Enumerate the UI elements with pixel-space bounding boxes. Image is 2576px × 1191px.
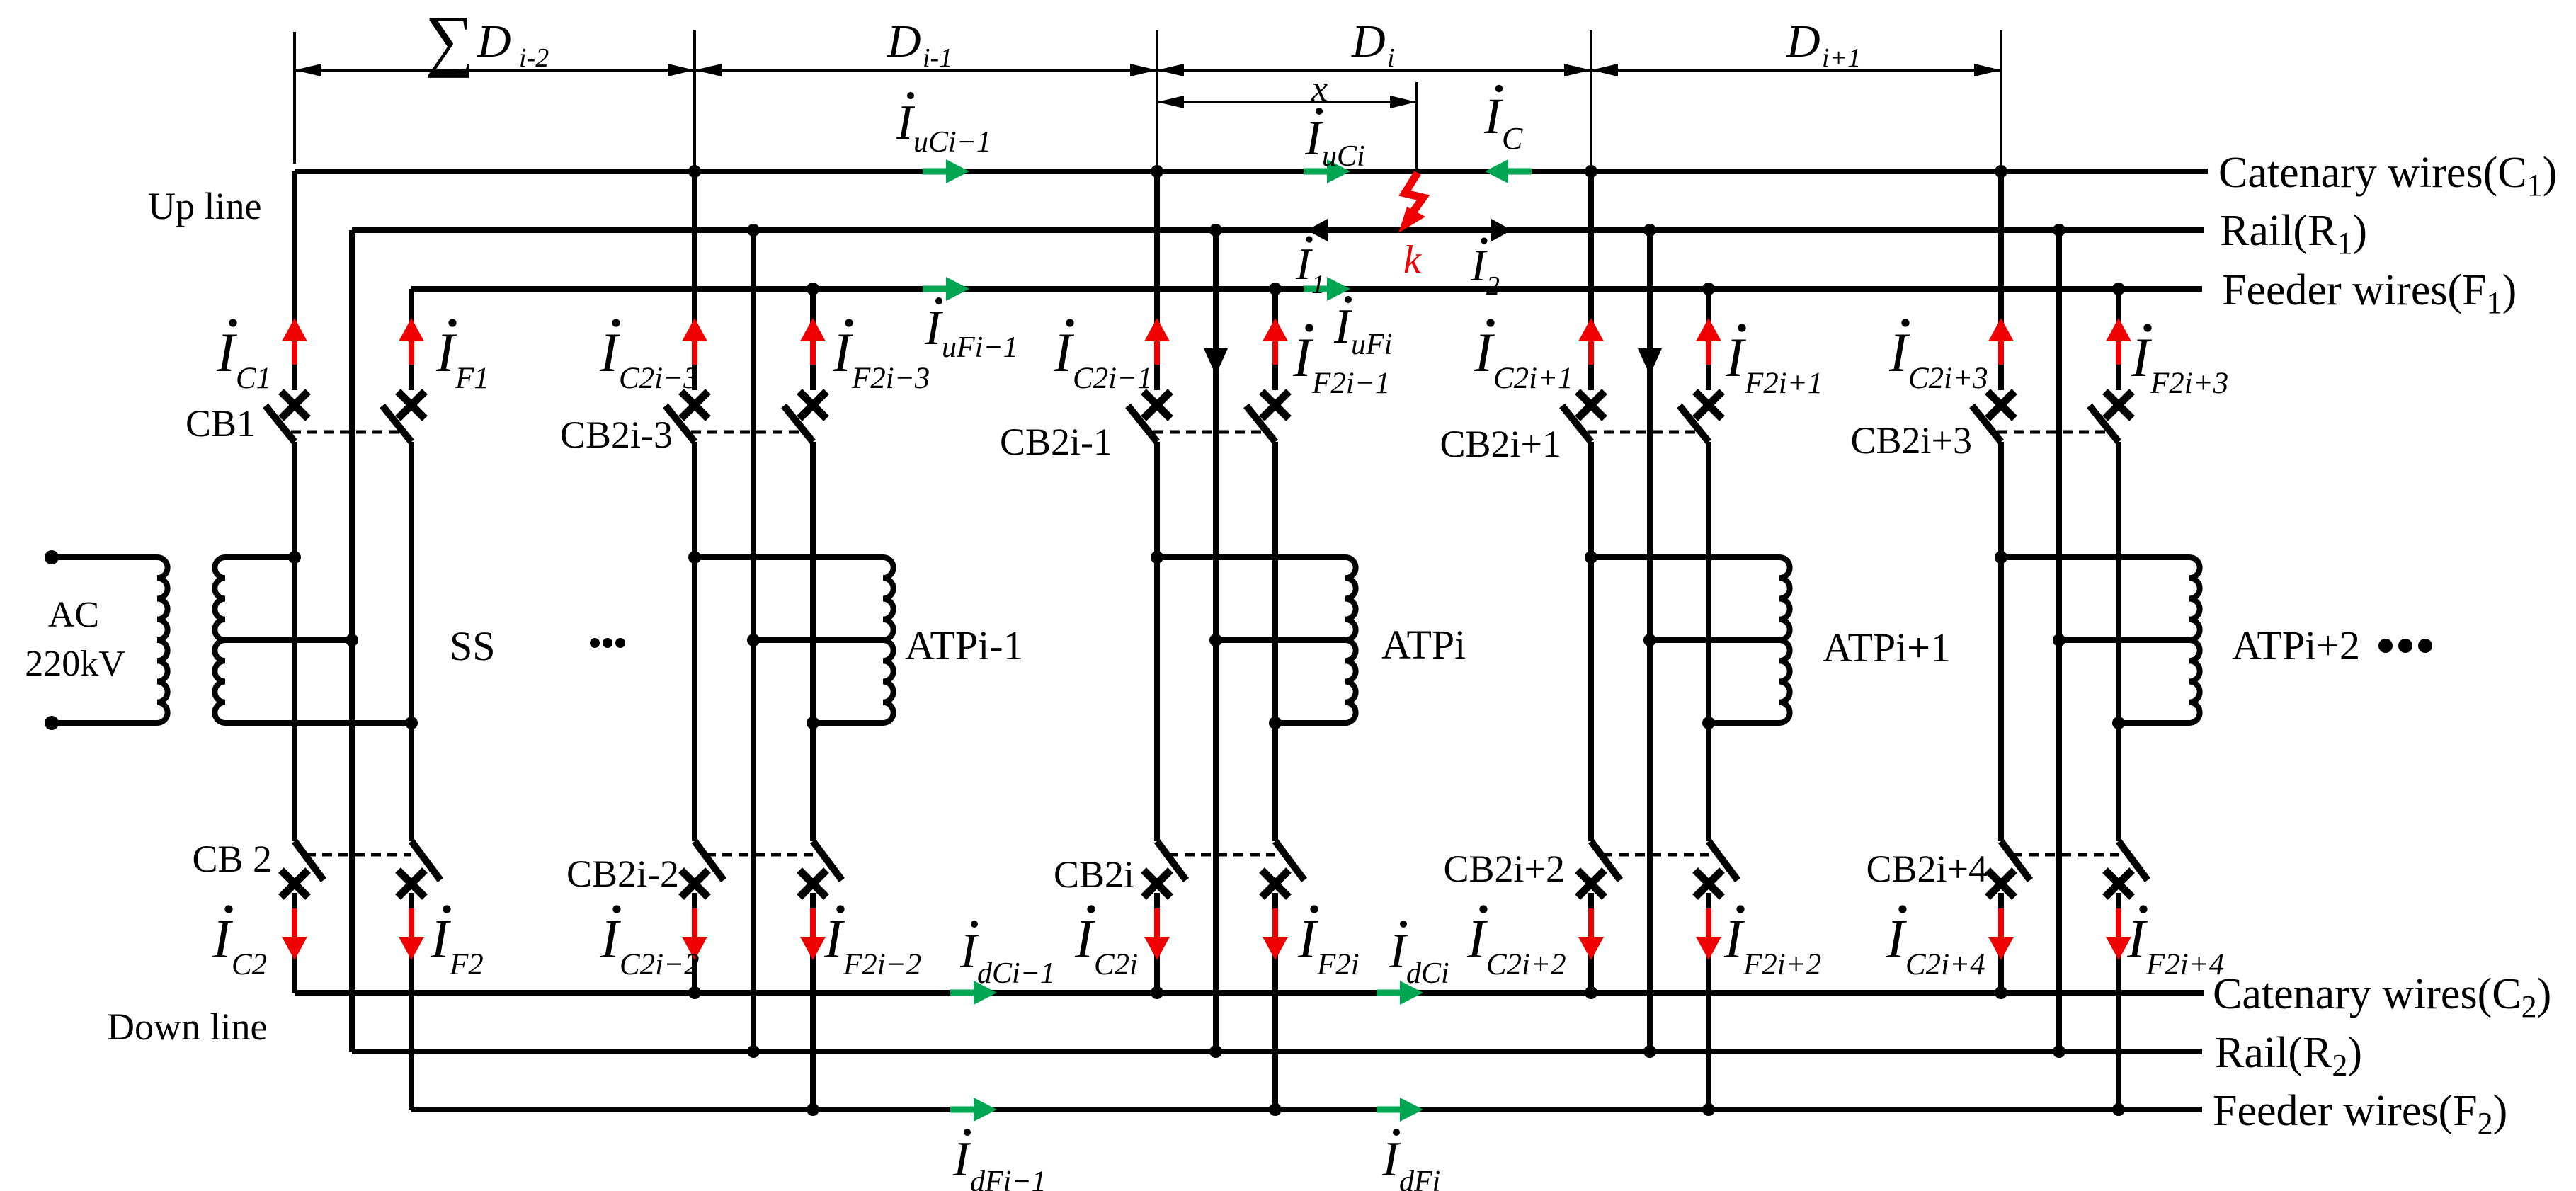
current arrow İ_C2i (red down)	[1144, 908, 1170, 960]
circuit breaker CB2i+3 feeder pole	[2090, 392, 2132, 442]
circuit breaker CB1 catenary pole	[266, 392, 308, 442]
label İ_C2i+1	[1474, 319, 1573, 395]
svg-text:I: I	[1725, 326, 1747, 388]
CB1 linkage dashed	[291, 431, 400, 434]
svg-text:I: I	[832, 321, 854, 383]
wire ATPi rail leg	[1213, 230, 1219, 1052]
label İ_C2	[212, 905, 267, 981]
svg-text:I: I	[1304, 111, 1324, 166]
transformer SS secondary winding	[215, 557, 225, 723]
node ATPi catenary tap	[1151, 551, 1163, 564]
wire ATPi+1 catenary leg upper (C1 to CB)	[1588, 171, 1594, 390]
label İ_uFi	[1333, 296, 1392, 361]
node ATPi feeder tap	[1269, 717, 1282, 729]
svg-text:F2i+1: F2i+1	[1744, 367, 1823, 400]
svg-text:i-1: i-1	[923, 43, 952, 73]
wire AC top terminal	[52, 554, 157, 560]
circuit breaker CB 2 feeder pole	[398, 841, 440, 897]
svg-text:ATPi-1: ATPi-1	[905, 622, 1024, 668]
dimension line spans D	[295, 69, 2001, 72]
wire ATPi bottom to feeder leg	[1275, 720, 1345, 726]
current arrow İ_F2i+2 (red down)	[1696, 908, 1721, 960]
node ATPi+2 rail centre tap	[2053, 634, 2065, 646]
wire ATPi-1 bottom to feeder leg	[813, 720, 883, 726]
label İ_C2i+3	[1888, 319, 1988, 395]
svg-text:I: I	[823, 908, 845, 969]
label D_i	[1351, 16, 1395, 73]
node ATPi-1 catenary-C1 junction	[688, 165, 701, 178]
wire ATPi-1 catenary leg upper (C1 to CB)	[692, 171, 697, 390]
svg-text:I: I	[896, 96, 916, 150]
node ATPi-1 rail-R2 junction	[747, 1045, 760, 1058]
svg-text:I: I	[1333, 300, 1353, 354]
wire AC bottom terminal	[52, 720, 157, 726]
wire SS catenary leg upper (C1 to CB)	[292, 171, 297, 390]
wire SS secondary centre tap to rail leg	[225, 637, 352, 643]
svg-text:C2i−1: C2i−1	[1073, 362, 1153, 395]
svg-text:I: I	[1723, 908, 1745, 969]
svg-text:I: I	[1886, 908, 1908, 969]
wire ATPi+1 catenary leg middle	[1588, 442, 1594, 841]
node ATPi+2 feeder tap	[2112, 717, 2125, 729]
autotransformer ATPi-1 winding	[883, 557, 894, 723]
svg-text:AC: AC	[48, 595, 99, 635]
current arrow İ_F2i-3 (red up)	[800, 318, 826, 365]
svg-text:D: D	[477, 16, 511, 67]
wire ATPi+1 feeder leg middle	[1706, 442, 1711, 841]
wire ATPi catenary leg lower (CB to C2)	[1154, 893, 1160, 993]
autotransformer ATPi winding	[1345, 557, 1356, 723]
node ATPi+1 catenary tap	[1585, 551, 1597, 564]
wire ATPi-1 feeder leg upper (F1 to CB)	[810, 289, 816, 390]
label İ_C2i+2	[1466, 905, 1566, 981]
circuit breaker CB1 feeder pole	[382, 392, 425, 442]
wire ATPi+2 rail leg	[2056, 230, 2062, 1052]
wire SS catenary leg middle	[292, 442, 297, 841]
svg-text:I: I	[1381, 1132, 1401, 1187]
svg-text:I: I	[216, 321, 238, 383]
svg-text:C2i+1: C2i+1	[1493, 362, 1573, 395]
current arrow İ_F2i-1 (red up)	[1263, 318, 1288, 365]
node ATPi+1 feeder-F2 junction	[1702, 1103, 1715, 1116]
label sum D_i-2	[425, 2, 549, 79]
label İ_uCi	[1304, 108, 1365, 173]
label İ_C2i-1	[1053, 319, 1153, 395]
dimension boundary tick above ATPi	[1156, 30, 1158, 170]
circuit breaker CB2i+4 feeder pole	[2105, 841, 2148, 897]
CB 2 linkage dashed	[306, 853, 411, 857]
svg-text:dFi: dFi	[1399, 1166, 1440, 1191]
label İ_F1	[435, 319, 489, 395]
CB2i linkage dashed	[1168, 853, 1275, 857]
svg-text:CB2i-1: CB2i-1	[1000, 421, 1112, 463]
wire ATPi+1 feeder leg upper (F1 to CB)	[1706, 289, 1711, 390]
label İ_F2i+1	[1725, 324, 1823, 400]
svg-text:I: I	[435, 321, 457, 383]
node SS secondary bottom junction	[405, 717, 418, 729]
label İ_C2i+4	[1886, 905, 1985, 981]
svg-text:I: I	[1389, 924, 1408, 979]
label İ_F2i-2	[823, 905, 921, 981]
label İ_C	[1483, 85, 1523, 156]
current arrow İ_C1 (red up)	[282, 318, 307, 365]
svg-text:F2i−2: F2i−2	[843, 948, 921, 981]
svg-text:F2i: F2i	[1316, 948, 1360, 981]
node ATPi-1 rail centre tap	[747, 634, 760, 646]
circuit breaker CB2i feeder pole	[1262, 841, 1304, 897]
node ATPi catenary-C2 junction	[1151, 986, 1163, 999]
label AC 220kV	[25, 595, 125, 684]
svg-text:dCi−1: dCi−1	[977, 957, 1055, 990]
svg-text:I: I	[430, 908, 452, 969]
node ATPi-1 catenary-C2 junction	[688, 986, 701, 999]
svg-text:I: I	[1466, 908, 1488, 969]
svg-text:F2i−3: F2i−3	[851, 362, 930, 395]
svg-text:220kV: 220kV	[25, 644, 125, 684]
node ATPi rail centre tap	[1209, 634, 1222, 646]
node ATPi-1 feeder-F2 junction	[807, 1103, 819, 1116]
circuit breaker CB2i+4 catenary pole	[1988, 841, 2030, 897]
label İ_F2i-1	[1292, 324, 1390, 400]
current arrow İ_1 (black, leftward) on R1	[1307, 219, 1328, 241]
node ATPi-1 feeder-F1 junction	[807, 283, 819, 295]
svg-text:I: I	[1292, 326, 1314, 388]
circuit breaker CB2i-1 catenary pole	[1128, 392, 1170, 442]
label İ_C1	[216, 319, 271, 395]
wire ATPi feeder leg lower (CB to F2)	[1272, 893, 1278, 1110]
label İ_F2i	[1297, 905, 1360, 981]
svg-text:I: I	[1053, 321, 1075, 383]
wire ATPi-1 catenary leg middle	[692, 442, 697, 841]
svg-text:Up line: Up line	[148, 185, 261, 227]
svg-text:F2i−1: F2i−1	[1311, 367, 1390, 400]
node ATPi+1 catenary-C2 junction	[1585, 986, 1597, 999]
circuit breaker CB2i catenary pole	[1144, 841, 1186, 897]
svg-text:C2: C2	[232, 948, 267, 981]
dimension arrowheads	[295, 64, 2001, 76]
node ATPi+1 rail-R1 junction	[1643, 224, 1656, 237]
svg-text:I: I	[952, 1132, 972, 1187]
svg-text:i-2: i-2	[519, 43, 549, 73]
ellipsis dots after ATPi+2	[2378, 639, 2432, 653]
svg-text:uFi−1: uFi−1	[942, 331, 1018, 364]
node ATPi+2 rail-R1 junction	[2053, 224, 2065, 237]
wire ATPi centre tap to rail leg	[1216, 637, 1345, 643]
svg-text:I: I	[1297, 908, 1319, 969]
wire SS secondary top to catenary leg	[225, 554, 295, 560]
svg-text:C: C	[1502, 121, 1523, 156]
svg-text:F2: F2	[449, 948, 484, 981]
wire ATPi+1 catenary leg lower (CB to C2)	[1588, 893, 1594, 993]
svg-text:ATPi: ATPi	[1381, 622, 1466, 668]
current arrow İ_dCi-1 (green) on C2	[950, 981, 997, 1005]
circuit breaker CB2i-3 feeder pole	[784, 392, 826, 442]
wire ATPi+1 centre tap to rail leg	[1650, 637, 1779, 643]
CB2i+1 linkage dashed	[1588, 431, 1697, 434]
label D_i-1	[887, 16, 952, 73]
svg-text:Catenary wires(C2): Catenary wires(C2)	[2213, 970, 2551, 1024]
wire ATPi-1 centre tap to rail leg	[753, 637, 883, 643]
svg-text:F2i+3: F2i+3	[2150, 367, 2228, 400]
wire ATPi+2 catenary leg upper (C1 to CB)	[1998, 171, 2004, 390]
fault distance tick at k	[1415, 82, 1418, 170]
wire ATPi+1 feeder leg lower (CB to F2)	[1706, 893, 1711, 1110]
wire ATPi top to catenary leg	[1157, 554, 1345, 560]
wire ATPi-1 feeder leg lower (CB to F2)	[810, 893, 816, 1110]
svg-text:2: 2	[1486, 271, 1500, 301]
wire ATPi catenary leg middle	[1154, 442, 1160, 841]
CB2i-2 linkage dashed	[706, 853, 813, 857]
label İ_C2i	[1074, 905, 1138, 981]
svg-text:ATPi+2: ATPi+2	[2232, 622, 2360, 668]
AC source terminal dots	[45, 550, 59, 730]
autotransformer ATPi+2 winding	[2189, 557, 2200, 723]
node ATPi+2 catenary-C1 junction	[1995, 165, 2007, 178]
current arrow İ_C2 (red down)	[282, 908, 307, 960]
label D_i+1	[1786, 16, 1861, 73]
label İ_dCi-1	[959, 921, 1055, 990]
node ATPi+2 catenary tap	[1995, 551, 2007, 564]
wire ATPi+1 top to catenary leg	[1591, 554, 1779, 560]
current arrow İ_C2i+3 (red up)	[1988, 318, 2014, 365]
current arrow İ_dFi (green) on F2	[1377, 1098, 1423, 1122]
current arrow İ_uFi (green) on F1	[1304, 277, 1350, 301]
CB2i+4 linkage dashed	[2012, 853, 2119, 857]
wire ATPi-1 rail leg	[751, 230, 756, 1052]
svg-text:C2i+4: C2i+4	[1905, 948, 1985, 981]
label İ_uFi-1	[924, 297, 1018, 364]
node ATPi+2 rail-R2 junction	[2053, 1045, 2065, 1058]
svg-text:Catenary wires(C1): Catenary wires(C1)	[2218, 149, 2557, 203]
current arrow İ_uCi (green) on C1	[1304, 159, 1350, 183]
label İ_dCi	[1389, 921, 1449, 990]
current arrow İ_uCi-1 (green) on C1	[923, 159, 969, 183]
current arrow İ_2 (black, rightward) on R1	[1491, 219, 1512, 241]
current arrow İ_dFi-1 (green) on F2	[950, 1098, 997, 1122]
wire catenary C1 (up line)	[295, 169, 2208, 174]
svg-text:D: D	[1786, 16, 1820, 67]
svg-text:∑: ∑	[425, 2, 474, 79]
svg-text:C2i−2: C2i−2	[620, 948, 700, 981]
wire ATPi-1 catenary leg lower (CB to C2)	[692, 893, 697, 993]
svg-text:CB2i: CB2i	[1054, 853, 1134, 896]
svg-text:SS: SS	[450, 623, 496, 669]
CB2i-3 linkage dashed	[691, 431, 802, 434]
svg-text:F2i+2: F2i+2	[1743, 948, 1821, 981]
node SS secondary top junction	[288, 551, 301, 564]
wire rail R2 (down line)	[352, 1049, 2202, 1054]
svg-text:CB2i-3: CB2i-3	[560, 414, 673, 456]
wire SS secondary bottom to feeder leg	[225, 720, 411, 726]
svg-text:I: I	[1474, 321, 1495, 383]
black down arrow on ATPi rail leg	[1204, 348, 1228, 375]
wire ATPi+2 centre tap to rail leg	[2059, 637, 2189, 643]
node ATPi feeder-F2 junction	[1269, 1103, 1282, 1116]
svg-text:I: I	[1295, 239, 1313, 289]
svg-text:uCi: uCi	[1322, 140, 1365, 173]
wire ATPi+2 feeder leg lower (CB to F2)	[2116, 893, 2121, 1110]
node SS centre tap junction	[346, 634, 358, 646]
node ATPi feeder-F1 junction	[1269, 283, 1282, 295]
CB2i+2 linkage dashed	[1602, 853, 1709, 857]
svg-text:x: x	[1311, 69, 1328, 109]
wire SS catenary leg lower (CB to C2)	[292, 893, 297, 993]
wire ATPi feeder leg middle	[1272, 442, 1278, 841]
svg-text:Feeder wires(F2): Feeder wires(F2)	[2213, 1087, 2507, 1141]
dimension boundary tick above ATPi+2	[2000, 30, 2002, 170]
node ATPi-1 feeder tap	[807, 717, 819, 729]
wire ATPi+2 catenary leg middle	[1998, 442, 2004, 841]
wire SS feeder leg upper (F1 to CB)	[409, 289, 414, 390]
current arrow İ_F1 (red up)	[399, 318, 424, 365]
wire ATPi+1 rail leg	[1647, 230, 1653, 1052]
svg-text:CB2i+1: CB2i+1	[1440, 423, 1562, 465]
circuit breaker CB2i+1 catenary pole	[1562, 392, 1605, 442]
wire feeder F1 (up line)	[411, 286, 2202, 292]
svg-text:I: I	[599, 321, 621, 383]
label İ_F2i+4	[2126, 905, 2224, 981]
wire SS feeder leg middle	[409, 442, 414, 841]
svg-text:CB1: CB1	[186, 402, 256, 445]
node ATPi+2 feeder-F2 junction	[2112, 1103, 2125, 1116]
wire ATPi+2 catenary leg lower (CB to C2)	[1998, 893, 2004, 993]
current arrow İ_F2 (red down)	[399, 908, 424, 960]
current arrow İ_C (green, leftward) on C1	[1485, 159, 1532, 183]
label İ_F2i+3	[2131, 324, 2228, 400]
svg-text:CB2i-2: CB2i-2	[566, 853, 679, 895]
fault lightning bolt at k	[1398, 173, 1425, 233]
svg-text:i+1: i+1	[1822, 43, 1861, 73]
svg-text:I: I	[1074, 908, 1096, 969]
wire catenary C2 (down line)	[295, 990, 2204, 996]
circuit breaker CB 2 catenary pole	[281, 841, 324, 897]
current arrow İ_uFi-1 (green) on F1	[923, 277, 969, 301]
transformer SS primary winding	[157, 557, 168, 723]
svg-text:C2i+3: C2i+3	[1908, 362, 1988, 395]
svg-text:ATPi+1: ATPi+1	[1823, 625, 1951, 671]
CB2i+3 linkage dashed	[1997, 431, 2107, 434]
circuit breaker CB2i+1 feeder pole	[1680, 392, 1722, 442]
svg-text:k: k	[1403, 238, 1422, 282]
circuit breaker CB2i-2 catenary pole	[681, 841, 724, 897]
dimension boundary tick above ATPi-1	[693, 30, 696, 170]
svg-text:I: I	[959, 924, 979, 979]
wire ATPi feeder leg upper (F1 to CB)	[1272, 289, 1278, 390]
wire ATPi-1 top to catenary leg	[695, 554, 883, 560]
circuit breaker CB2i-1 feeder pole	[1246, 392, 1289, 442]
svg-text:I: I	[2131, 326, 2153, 388]
dimension boundary tick above SS	[293, 32, 296, 164]
svg-text:I: I	[1483, 88, 1503, 144]
node ATPi-1 rail-R1 junction	[747, 224, 760, 237]
node ATPi+1 catenary-C1 junction	[1585, 165, 1597, 178]
current arrow İ_F2i+3 (red up)	[2106, 318, 2131, 365]
label İ_C2i-3	[599, 319, 699, 395]
svg-text:C2i−3: C2i−3	[619, 362, 699, 395]
node ATPi+1 rail centre tap	[1643, 634, 1656, 646]
svg-text:C2i+2: C2i+2	[1486, 948, 1566, 981]
label İ_dFi	[1381, 1129, 1440, 1191]
svg-text:C2i: C2i	[1094, 948, 1138, 981]
dimension boundary tick above ATPi+1	[1590, 30, 1592, 170]
circuit breaker CB2i+2 feeder pole	[1695, 841, 1738, 897]
svg-text:1: 1	[1311, 270, 1325, 300]
svg-text:I: I	[212, 908, 234, 969]
CB2i-1 linkage dashed	[1153, 431, 1264, 434]
wire ATPi+2 bottom to feeder leg	[2119, 720, 2189, 726]
svg-text:dCi: dCi	[1406, 957, 1449, 990]
circuit breaker CB2i-2 feeder pole	[799, 841, 842, 897]
label İ_F2i+2	[1723, 905, 1821, 981]
svg-text:i: i	[1387, 43, 1395, 73]
node ATPi+1 feeder tap	[1702, 717, 1715, 729]
current arrow İ_C2i+2 (red down)	[1578, 908, 1604, 960]
label İ_F2i-3	[832, 319, 930, 395]
circuit breaker CB2i+3 catenary pole	[1972, 392, 2014, 442]
node ATPi+2 catenary-C2 junction	[1995, 986, 2007, 999]
current arrow İ_F2i (red down)	[1263, 908, 1288, 960]
svg-text:CB2i+3: CB2i+3	[1851, 419, 1973, 462]
wire rail R1 (up line)	[352, 227, 2204, 233]
wire feeder F2 (down line)	[411, 1107, 2202, 1112]
svg-text:I: I	[2126, 908, 2148, 969]
svg-text:I: I	[924, 301, 944, 355]
svg-text:dFi−1: dFi−1	[970, 1166, 1047, 1191]
wire ATPi+2 feeder leg middle	[2116, 442, 2121, 841]
wire SS feeder leg lower (CB to F2)	[409, 893, 414, 1110]
svg-text:C1: C1	[236, 362, 271, 395]
current arrow İ_dCi (green) on C2	[1377, 981, 1423, 1005]
label İ_dFi-1	[952, 1129, 1047, 1191]
svg-text:Down line: Down line	[107, 1005, 267, 1048]
label İ_uCi-1	[896, 92, 991, 159]
current arrow İ_C2i-2 (red down)	[682, 908, 707, 960]
label İ_1	[1295, 236, 1325, 300]
wire ATPi+2 feeder leg upper (F1 to CB)	[2116, 289, 2121, 390]
circuit breaker CB2i+2 catenary pole	[1578, 841, 1620, 897]
current arrow İ_F2i-2 (red down)	[800, 908, 826, 960]
svg-text:I: I	[1888, 321, 1910, 383]
node ATPi+1 feeder-F1 junction	[1702, 283, 1715, 295]
current arrow İ_F2i+4 (red down)	[2106, 908, 2131, 960]
current arrow İ_C2i+1 (red up)	[1578, 318, 1604, 365]
svg-text:I: I	[600, 908, 622, 969]
node ATPi rail-R2 junction	[1209, 1045, 1222, 1058]
svg-text:Feeder wires(F1): Feeder wires(F1)	[2222, 266, 2517, 320]
wire ATPi+2 top to catenary leg	[2001, 554, 2189, 560]
node ATPi catenary-C1 junction	[1151, 165, 1163, 178]
svg-text:uFi: uFi	[1351, 329, 1392, 361]
current arrow İ_F2i+1 (red up)	[1696, 318, 1721, 365]
node ATPi rail-R1 junction	[1209, 224, 1222, 237]
label İ_C2i-2	[600, 905, 700, 981]
svg-text:D: D	[887, 16, 921, 67]
svg-text:CB2i+4: CB2i+4	[1867, 848, 1988, 890]
svg-text:F1: F1	[455, 362, 489, 395]
wire ATPi catenary leg upper (C1 to CB)	[1154, 171, 1160, 390]
svg-text:CB2i+2: CB2i+2	[1444, 848, 1566, 890]
label İ_F2	[430, 905, 484, 981]
current arrow İ_C2i-3 (red up)	[682, 318, 707, 365]
svg-text:I: I	[1470, 240, 1488, 290]
autotransformer ATPi+1 winding	[1779, 557, 1790, 723]
black down arrow on ATPi+1 rail leg	[1638, 348, 1662, 375]
label İ_2	[1470, 237, 1500, 301]
node ATPi+1 rail-R2 junction	[1643, 1045, 1656, 1058]
wire SS rail leg	[349, 230, 355, 1052]
node ATPi+2 feeder-F1 junction	[2112, 283, 2125, 295]
dimension x arrowheads	[1157, 96, 1417, 108]
